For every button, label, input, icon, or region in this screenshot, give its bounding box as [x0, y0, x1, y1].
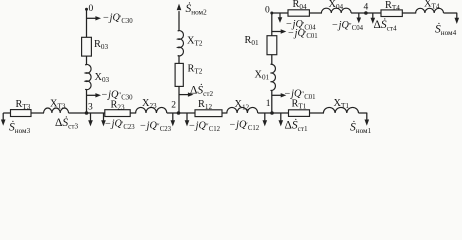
svg-text:− jQ′С04: − jQ′С04	[286, 19, 316, 31]
wire RT3 to XT3	[31, 112, 44, 114]
svg-text:R12: R12	[198, 99, 212, 111]
svg-text:− jQ′С23: − jQ′С23	[105, 119, 135, 131]
wire RT4 to XT4	[402, 12, 416, 14]
svg-text:− jQ″С01: − jQ″С01	[285, 89, 316, 101]
wire RT2 to node 2	[178, 86, 180, 113]
wire R01 to X01	[271, 55, 273, 65]
svg-text:R03: R03	[94, 39, 108, 51]
node 0 (right)	[270, 12, 273, 15]
svg-text:− jQ″С23: − jQ″С23	[140, 121, 172, 133]
load arrow S_nom4	[456, 13, 458, 19]
inductor XT4	[416, 8, 444, 13]
svg-text:ΔṠст1: ΔṠст1	[285, 117, 308, 134]
svg-text:X23: X23	[142, 98, 157, 110]
inductor XT2	[178, 31, 184, 56]
node 1	[270, 111, 274, 115]
resistor R01	[267, 36, 277, 55]
svg-text:ΔṠст3: ΔṠст3	[55, 114, 78, 131]
resistor R03	[82, 37, 92, 56]
svg-text:4: 4	[364, 3, 369, 13]
node 3	[85, 111, 89, 115]
charging arrow -jQ'_C03 at node 0 left	[87, 17, 97, 19]
svg-text:Ṡном4: Ṡном4	[435, 21, 457, 38]
station load arrow dS_st1	[280, 113, 282, 121]
svg-text:0: 0	[265, 5, 270, 15]
svg-text:XТ1: XТ1	[334, 98, 350, 110]
inductor X03	[85, 65, 91, 90]
inductor XT3	[44, 108, 69, 113]
resistor RT3	[11, 110, 32, 117]
wire node0R to R04	[272, 12, 289, 14]
wire XT2 to RT2	[178, 56, 180, 64]
wire X03 to node 3	[86, 89, 88, 113]
node 4	[364, 11, 368, 15]
svg-text:ΔṠст2: ΔṠст2	[190, 81, 213, 98]
wire X04 to node 4	[351, 12, 381, 14]
wire X01 to node 1	[271, 91, 273, 114]
svg-text:X01: X01	[255, 70, 270, 82]
resistor R12	[195, 110, 222, 117]
wire X12 to node 1	[258, 112, 289, 114]
wire X23 to node 2	[167, 112, 195, 114]
svg-text:R01: R01	[245, 35, 259, 47]
wire RT1 to XT1	[310, 112, 325, 114]
load arrow S_nom3 at left end	[2, 113, 4, 121]
charging arrow -jQ"_C03 near node 3	[87, 94, 97, 96]
svg-text:− jQ″С12: − jQ″С12	[189, 121, 221, 133]
charging arrow -jQ'_C04	[279, 13, 281, 18]
svg-text:0: 0	[89, 4, 94, 14]
charging arrow -jQ"_C04 near node 4	[358, 13, 360, 19]
wire R04 to X04	[309, 12, 322, 14]
svg-text:XТ4: XТ4	[424, 0, 440, 11]
load arrow S_nom1 at right end	[366, 113, 368, 121]
node 0 (left)	[85, 8, 88, 11]
svg-text:RТ2: RТ2	[188, 64, 203, 76]
svg-text:X04: X04	[329, 0, 344, 11]
wire R12 to X12	[222, 112, 227, 114]
svg-text:R04: R04	[293, 0, 307, 11]
charging arrow -jQ'_C12 near node 1	[264, 113, 266, 121]
charging arrow -jQ'_C01	[272, 31, 282, 33]
svg-text:− jQ′С30: − jQ′С30	[103, 13, 133, 25]
svg-text:1: 1	[266, 99, 271, 109]
resistor R23	[105, 110, 130, 117]
svg-text:− jQ′С12: − jQ′С12	[230, 120, 260, 132]
station load arrow dS_st2	[179, 94, 189, 96]
charging arrow -jQ'_C23 at node 3	[103, 113, 105, 121]
inductor X01	[271, 64, 276, 90]
svg-text:Ṡном3: Ṡном3	[9, 119, 31, 136]
wire R23 to X23	[130, 112, 136, 114]
resistor RT4	[381, 10, 402, 17]
inductor X04	[321, 8, 351, 13]
charging arrow -jQ"_C01 near node 1	[272, 94, 282, 96]
resistor R04	[288, 10, 309, 16]
station load arrow dS_st4	[372, 13, 374, 19]
inductor X12	[227, 107, 258, 113]
wire XT1 to right end	[359, 112, 368, 114]
resistor RT2	[175, 63, 183, 86]
generation arrow S_nom2	[178, 11, 180, 31]
wire R03 to X03	[86, 56, 88, 65]
inductor X23	[136, 107, 167, 113]
svg-text:XТ3: XТ3	[50, 98, 66, 110]
svg-text:RТ4: RТ4	[385, 0, 400, 12]
charging arrow -jQ"_C12 at node 2	[186, 113, 188, 121]
svg-text:Ṡном2: Ṡном2	[186, 0, 208, 17]
wire XT3 to node 3	[69, 112, 105, 114]
svg-text:ΔṠст4: ΔṠст4	[374, 16, 397, 33]
svg-text:X12: X12	[235, 99, 250, 111]
station load arrow dS_st3	[90, 113, 92, 121]
wire XT4 to right end	[444, 12, 458, 14]
svg-text:2: 2	[171, 101, 176, 111]
svg-text:3: 3	[88, 103, 93, 113]
svg-text:XТ2: XТ2	[187, 36, 203, 48]
inductor XT1	[323, 107, 358, 113]
node 2	[177, 111, 181, 115]
svg-text:− jQ″С30: − jQ″С30	[102, 89, 134, 101]
svg-text:RТ3: RТ3	[16, 99, 31, 111]
charging arrow -jQ"_C23 near node 2	[172, 113, 174, 121]
wire node0L down to R03	[86, 9, 88, 37]
svg-text:X03: X03	[95, 72, 110, 84]
wire node0R down to R01	[271, 13, 273, 36]
wire: bottom main line left end to RT3	[3, 112, 11, 114]
resistor RT1	[289, 110, 310, 117]
